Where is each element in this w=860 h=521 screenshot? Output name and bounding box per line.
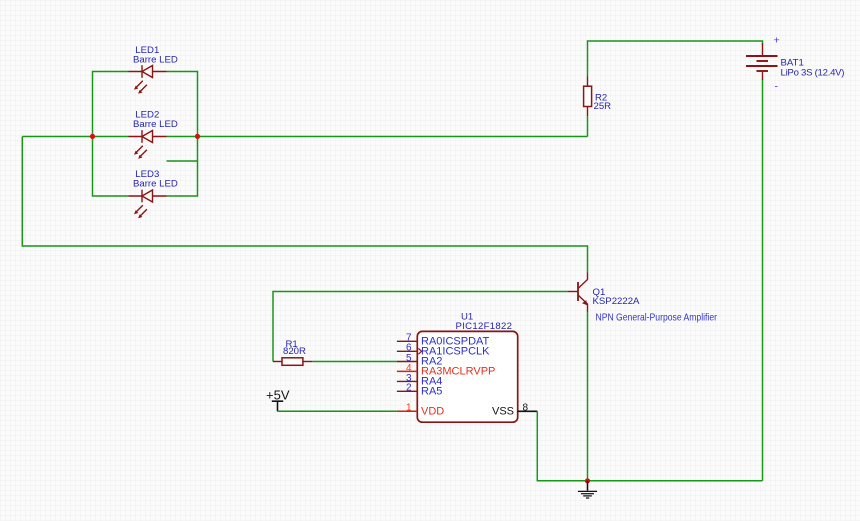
pin 1 stub [397,410,417,412]
wire LED2 middle row [22,136,587,138]
battery BAT1 [746,44,778,81]
pin 5 stub [397,361,417,363]
wire top rail from R2 top to battery + [588,41,763,77]
wire outer loop left and bottom [22,137,587,273]
wire VSS down to ground rail [537,411,762,481]
svg-text:VSS: VSS [492,406,514,418]
LED LED3 [129,190,167,219]
svg-text:-: - [775,81,779,93]
resistor R1 [273,358,312,366]
svg-text:+5V: +5V [266,388,290,403]
junction dot right (LED2 row) [195,134,200,139]
wire Q1 emitter down to ground rail [587,312,589,481]
pin 4 stub [397,370,417,372]
wire battery negative down to ground rail [762,80,764,481]
pin 7 stub [397,340,417,342]
wire R2 bottom to LED row [587,116,589,136]
svg-text:1: 1 [406,403,412,414]
pin 2 stub [397,390,417,392]
wire Q1 base to R1 [273,292,568,362]
IC U1 body [417,331,517,422]
wire LED1 branch [93,72,198,137]
svg-text:KSP2222A: KSP2222A [593,296,641,307]
svg-text:25R: 25R [594,101,612,112]
svg-text:Barre LED: Barre LED [133,119,178,130]
pin 6 stub [397,350,417,352]
resistor R2 [584,77,592,117]
svg-text:PIC12F1822: PIC12F1822 [456,321,513,332]
svg-text:+: + [774,35,780,47]
wire R1 to pin RA2 [312,361,397,363]
clock chevron pin 6 [418,348,421,354]
junction dot left (LED2 row) [90,134,95,139]
svg-text:Barre LED: Barre LED [133,54,178,65]
pin 8 stub [518,410,538,412]
LED LED1 [129,65,167,94]
junction dot ground [585,478,590,483]
svg-text:820R: 820R [283,346,306,357]
svg-text:VDD: VDD [421,406,444,418]
svg-text:8: 8 [523,402,529,413]
transistor Q1 [568,273,588,313]
svg-text:2: 2 [406,383,412,394]
svg-text:RA5: RA5 [421,386,442,398]
ground symbol [578,481,597,498]
pin 3 stub [397,380,417,382]
power +5V symbol [272,401,283,411]
svg-text:LiPo 3S (12.4V): LiPo 3S (12.4V) [781,68,845,79]
svg-text:NPN General-Purpose Amplifier: NPN General-Purpose Amplifier [596,312,718,324]
wire LED3 branch [93,137,198,197]
svg-text:Barre LED: Barre LED [133,179,178,190]
LED LED2 [129,130,167,159]
wire +5V to pin VDD [278,410,397,412]
wire stub near LED2/LED3 [167,160,198,162]
